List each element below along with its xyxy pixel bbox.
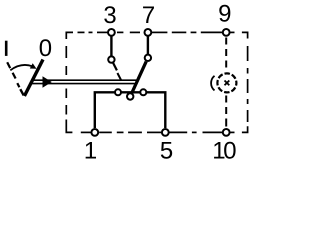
terminal 7 bbox=[145, 29, 152, 36]
dashed wire lamp to terminal 10 bbox=[225, 96, 227, 127]
label 3 bbox=[104, 6, 115, 23]
terminal 3 bbox=[108, 29, 115, 36]
enclosure dashed border bottom bbox=[66, 126, 247, 132]
bus contact circle left bbox=[115, 89, 121, 95]
label 5 bbox=[161, 142, 172, 159]
bus contact circle right bbox=[140, 89, 146, 95]
contact circle under 7 bbox=[145, 55, 151, 61]
enclosure dashed border left bbox=[65, 46, 67, 126]
lamp: x mark bbox=[225, 81, 230, 86]
pivot contact circle bbox=[127, 93, 133, 99]
enclosure dashed border right bbox=[247, 46, 249, 122]
lamp: dashed circle bbox=[217, 73, 236, 92]
terminal 9 bbox=[223, 29, 230, 36]
lever dashed leg (position I) bbox=[7, 62, 19, 87]
lever solid leg (position 0) bbox=[24, 60, 43, 97]
lever motion arc arrow bbox=[10, 65, 32, 70]
contact tick under terminal 3 bbox=[113, 63, 117, 71]
label 1 bbox=[86, 142, 96, 159]
lamp: parenthesis bbox=[211, 76, 214, 91]
lever apex tick bbox=[20, 89, 23, 95]
label 10 bbox=[214, 142, 236, 159]
terminal 5 bbox=[162, 129, 169, 136]
actuator shaft double line bbox=[33, 79, 136, 81]
dashed wire terminal 9 to lamp bbox=[225, 38, 227, 68]
terminal 10 bbox=[223, 129, 230, 136]
dashed alternate arm position bbox=[117, 73, 121, 81]
label 9 bbox=[219, 5, 230, 22]
label I (lever position I) bbox=[5, 41, 8, 56]
enclosure dashed border top bbox=[66, 32, 247, 39]
wire: stub terminal 7 to contact bbox=[147, 32, 149, 56]
actuator arrow head bbox=[43, 76, 52, 87]
bus conductor 1-5 bbox=[95, 92, 166, 128]
wire: stub terminal 3 to contact bbox=[110, 32, 112, 57]
label 7 bbox=[143, 6, 154, 23]
contact circle under 3 bbox=[108, 56, 114, 62]
terminal 1 bbox=[91, 129, 98, 136]
label 0 (lever position 0) bbox=[40, 39, 51, 56]
switch arm (moving contact) bbox=[130, 62, 146, 97]
